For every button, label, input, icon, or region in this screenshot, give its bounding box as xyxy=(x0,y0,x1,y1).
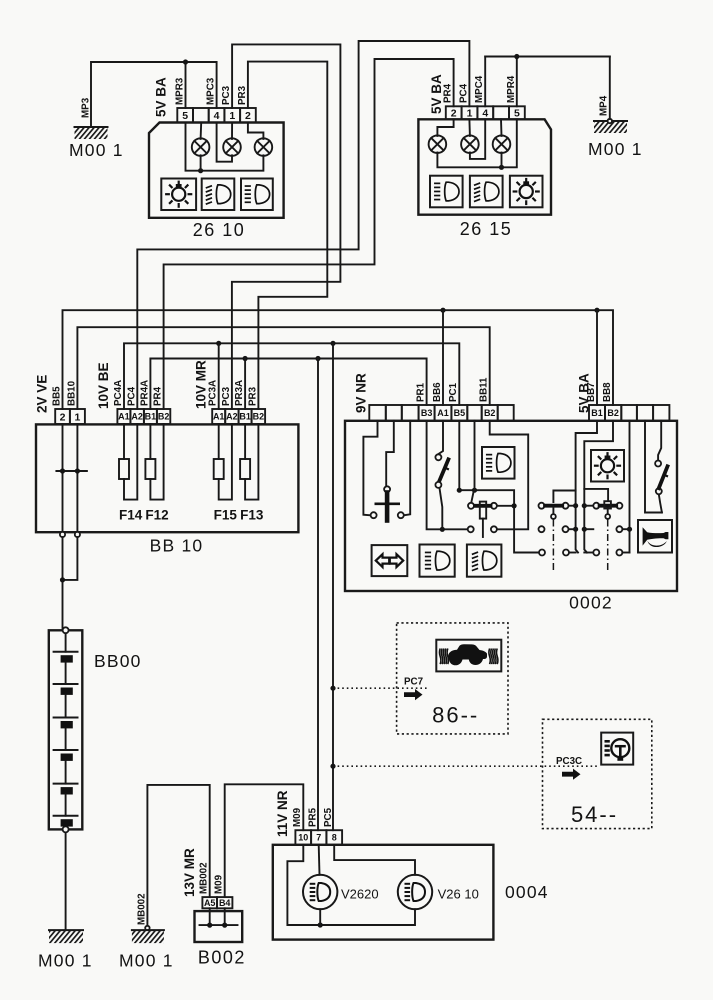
svg-text:PC7: PC7 xyxy=(404,677,424,688)
svg-text:BB 10: BB 10 xyxy=(150,536,204,556)
svg-text:2: 2 xyxy=(245,110,251,122)
svg-text:B3: B3 xyxy=(421,408,433,418)
svg-text:MPR3: MPR3 xyxy=(175,77,186,105)
svg-text:A5: A5 xyxy=(204,898,216,908)
svg-text:MPC3: MPC3 xyxy=(206,77,217,105)
svg-text:B5: B5 xyxy=(454,408,466,418)
svg-text:5: 5 xyxy=(514,108,520,120)
svg-text:PC3A: PC3A xyxy=(208,380,219,406)
svg-text:B1: B1 xyxy=(239,412,251,422)
svg-text:PC3: PC3 xyxy=(221,85,232,105)
svg-text:M00 1: M00 1 xyxy=(69,140,124,160)
svg-text:2: 2 xyxy=(60,411,66,423)
svg-text:9V NR: 9V NR xyxy=(354,373,369,413)
svg-text:MB002: MB002 xyxy=(199,862,210,894)
svg-text:A2: A2 xyxy=(131,412,143,422)
svg-text:F15: F15 xyxy=(214,508,238,523)
svg-text:11V NR: 11V NR xyxy=(275,790,290,837)
svg-text:BB8: BB8 xyxy=(602,382,613,402)
svg-text:BB10: BB10 xyxy=(67,380,78,406)
svg-text:MP4: MP4 xyxy=(599,95,610,116)
svg-text:F14: F14 xyxy=(119,508,143,523)
svg-text:10V MR: 10V MR xyxy=(194,360,209,409)
svg-text:BB6: BB6 xyxy=(432,382,443,402)
svg-text:F13: F13 xyxy=(240,508,264,523)
svg-text:13V MR: 13V MR xyxy=(182,848,197,897)
svg-text:A1: A1 xyxy=(118,412,130,422)
svg-text:MPR4: MPR4 xyxy=(506,75,517,103)
svg-text:PR4: PR4 xyxy=(443,83,454,103)
svg-text:V2620: V2620 xyxy=(341,887,379,902)
svg-text:M09: M09 xyxy=(214,874,225,894)
svg-text:BB11: BB11 xyxy=(479,377,490,402)
svg-text:M00 1: M00 1 xyxy=(588,139,643,159)
svg-text:F12: F12 xyxy=(145,508,168,523)
svg-text:V26 10: V26 10 xyxy=(438,887,479,902)
svg-text:BB00: BB00 xyxy=(94,651,142,671)
svg-text:M09: M09 xyxy=(292,807,303,827)
svg-text:0002: 0002 xyxy=(569,593,613,613)
svg-text:MPC4: MPC4 xyxy=(474,75,485,103)
svg-text:PC4: PC4 xyxy=(459,83,470,103)
svg-text:4: 4 xyxy=(482,108,488,120)
svg-text:26 15: 26 15 xyxy=(460,219,513,239)
svg-text:A2: A2 xyxy=(226,412,238,422)
svg-text:MP3: MP3 xyxy=(81,97,92,118)
svg-text:B4: B4 xyxy=(219,898,231,908)
svg-text:1: 1 xyxy=(229,110,235,122)
svg-text:BB5: BB5 xyxy=(52,386,63,406)
svg-text:M00 1: M00 1 xyxy=(119,951,174,971)
svg-text:PR5: PR5 xyxy=(308,807,319,827)
svg-text:7: 7 xyxy=(316,833,321,843)
svg-text:PR1: PR1 xyxy=(416,382,427,402)
svg-text:26 10: 26 10 xyxy=(193,220,246,240)
svg-text:10: 10 xyxy=(298,833,308,843)
svg-text:B1: B1 xyxy=(145,412,157,422)
svg-text:4: 4 xyxy=(214,110,220,122)
svg-text:PC3: PC3 xyxy=(221,386,232,406)
svg-text:0004: 0004 xyxy=(505,882,549,902)
svg-text:A1: A1 xyxy=(213,412,225,422)
svg-text:1: 1 xyxy=(74,411,80,423)
svg-text:B2: B2 xyxy=(484,408,496,418)
svg-text:PC1: PC1 xyxy=(448,382,459,402)
svg-text:PR4: PR4 xyxy=(153,386,164,406)
svg-text:10V BE: 10V BE xyxy=(96,362,111,409)
svg-text:2: 2 xyxy=(451,108,457,120)
svg-text:5: 5 xyxy=(182,110,188,122)
svg-text:86--: 86-- xyxy=(432,703,479,728)
svg-text:MB002: MB002 xyxy=(137,893,148,925)
svg-text:B002: B002 xyxy=(198,948,246,968)
svg-text:B2: B2 xyxy=(607,408,619,418)
svg-text:54--: 54-- xyxy=(571,802,618,827)
svg-text:BB7: BB7 xyxy=(586,382,597,402)
svg-text:B1: B1 xyxy=(591,408,603,418)
svg-text:2V VE: 2V VE xyxy=(35,375,50,413)
svg-text:B2: B2 xyxy=(253,412,265,422)
svg-text:PC4: PC4 xyxy=(127,386,138,406)
svg-text:M00 1: M00 1 xyxy=(38,951,93,971)
svg-text:PC4A: PC4A xyxy=(113,380,124,406)
svg-text:5V BA: 5V BA xyxy=(154,77,169,117)
svg-text:8: 8 xyxy=(332,833,337,843)
svg-text:A1: A1 xyxy=(437,408,449,418)
svg-text:1: 1 xyxy=(467,108,473,120)
svg-text:PR4A: PR4A xyxy=(140,380,151,406)
svg-text:PC3C: PC3C xyxy=(556,756,582,767)
svg-text:PC5: PC5 xyxy=(323,807,334,827)
svg-text:PR3A: PR3A xyxy=(234,380,245,406)
svg-text:PR3: PR3 xyxy=(248,386,259,406)
svg-text:B2: B2 xyxy=(158,412,170,422)
svg-text:PR3: PR3 xyxy=(237,85,248,105)
